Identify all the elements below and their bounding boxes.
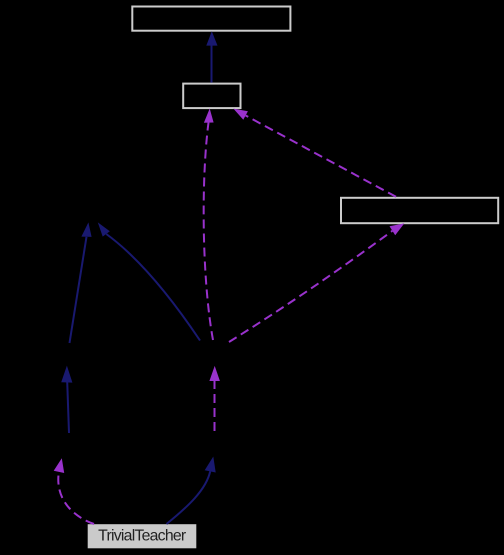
inheritance edge J1 to N2 (solid blue diagonal, arrow up-left): [98, 222, 200, 340]
node box D TrivialTeacher (current node, gray fill): [88, 524, 197, 548]
inheritance edge B to A (solid blue, arrow up): [206, 31, 217, 82]
node box A (top base class, empty label): [132, 7, 290, 31]
usage edge J1 to C (dashed purple diagonal, arrow up-right): [229, 223, 404, 342]
usage edge C to B (dashed purple, arrow up-left): [233, 109, 396, 197]
usage edge D to J3 (dashed purple curve, arrow up): [54, 458, 94, 524]
inheritance edge D to J4 (solid blue curve, arrow up): [167, 457, 216, 525]
node box C (right class, empty label): [341, 198, 498, 223]
svg-text:TrivialTeacher: TrivialTeacher: [98, 528, 186, 545]
usage edge J1 to B (dashed purple vertical curve, arrow up): [204, 109, 214, 341]
usage edge J4 to J1 (dashed purple vertical, arrow up): [209, 366, 220, 431]
inheritance edge J2 to N2 (solid blue, arrow up): [70, 222, 92, 343]
node box B (second-level class, empty label): [183, 84, 240, 109]
inheritance edge J3 to J2 (solid blue vertical, arrow up): [61, 366, 72, 433]
